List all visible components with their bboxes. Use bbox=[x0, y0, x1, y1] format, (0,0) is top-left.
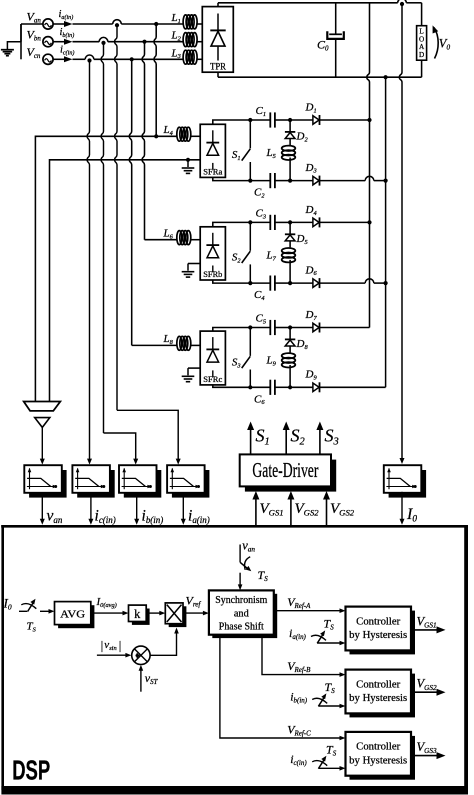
inductor L1 bbox=[171, 12, 203, 29]
wire multiplier to synchronism block bbox=[183, 611, 209, 616]
node D4 to bus A bbox=[367, 220, 371, 224]
wire k to multiplier bbox=[146, 611, 165, 616]
capacitor C4 bbox=[254, 276, 290, 303]
gate signal S1 arrow bbox=[247, 422, 270, 455]
diode D8 bbox=[285, 328, 309, 353]
wire phase-A sensor line to i_a sensor bbox=[115, 25, 117, 410]
block Controller by Hysteresis GS2 bbox=[346, 670, 416, 718]
block Synchronism and Phase Shift bbox=[209, 590, 277, 638]
capacitor C1 bbox=[256, 105, 291, 128]
ground SFRa bbox=[182, 158, 195, 174]
wire sampler to AVG bbox=[40, 609, 55, 614]
signal v_an into DSP sampler bbox=[238, 539, 268, 591]
svg-text:O: O bbox=[419, 35, 424, 43]
diode D9 bbox=[290, 369, 386, 393]
block multiplier X bbox=[165, 603, 186, 627]
ground SFRb bbox=[182, 264, 201, 278]
switch S3 bbox=[232, 325, 253, 389]
block Controller by Hysteresis GS1 bbox=[346, 607, 416, 655]
wire TPR positive stub bbox=[217, 3, 219, 7]
signal VGS2 into gate driver bbox=[287, 491, 319, 525]
signal i_a(in) sampler into controller bbox=[289, 617, 346, 646]
wire |v_sin| to modulator circle bbox=[97, 653, 131, 658]
capacitor C3 bbox=[256, 207, 291, 230]
wire SFRc bottom row bbox=[213, 385, 270, 387]
node phase-A sensor tap bbox=[115, 23, 119, 27]
svg-text:L: L bbox=[419, 28, 423, 36]
wire phase-C feed to module c bbox=[129, 59, 131, 345]
wire TPR negative stub bbox=[217, 72, 219, 77]
node bus-B on bottom rail bbox=[384, 75, 388, 79]
diode D3 bbox=[290, 162, 386, 186]
capacitor C2 bbox=[254, 173, 290, 200]
svg-text:A: A bbox=[419, 43, 425, 51]
wire SFRc top row bbox=[213, 328, 270, 332]
diode D7 bbox=[290, 309, 369, 333]
svg-text:|: | bbox=[119, 638, 122, 653]
ground neutral bbox=[7, 42, 21, 50]
svg-text:k: k bbox=[134, 607, 141, 621]
wire SFRb top row bbox=[213, 222, 270, 226]
wire AVG to k, label I0(avg) bbox=[91, 596, 129, 615]
node D6 to bus B bbox=[384, 281, 388, 285]
svg-text:by Hysteresis: by Hysteresis bbox=[349, 756, 407, 767]
svg-text:|: | bbox=[101, 638, 104, 653]
signal i_c(in) sampler into controller bbox=[290, 743, 345, 771]
block SFRc bbox=[200, 331, 225, 385]
block k bbox=[129, 605, 150, 625]
node after C5 bbox=[288, 325, 292, 329]
node D3 to bus B bbox=[384, 179, 388, 183]
sensor i_c(in) bbox=[72, 465, 115, 525]
ground SFRc bbox=[182, 368, 201, 382]
signal i_b(in) sampler into controller bbox=[290, 680, 345, 708]
source Vcn bbox=[27, 45, 54, 64]
svg-text:Synchronism: Synchronism bbox=[215, 595, 267, 606]
inductor L7 bbox=[266, 248, 296, 283]
wire SFRa bottom row bbox=[213, 177, 270, 180]
wire V_Ref-A to controller 1 bbox=[274, 595, 346, 613]
inductor L8 bbox=[163, 333, 201, 350]
svg-text:and: and bbox=[234, 608, 250, 619]
sampler switch Ts for I0 bbox=[21, 599, 36, 634]
wire bus A positive collector bbox=[367, 3, 370, 328]
wire neutral sense line (SFRa ground row) bbox=[50, 160, 201, 402]
signal v_ST input arrow bbox=[139, 665, 159, 692]
capacitor C6 bbox=[254, 380, 290, 406]
current arrow ia(in) bbox=[53, 9, 73, 27]
load block bbox=[417, 3, 427, 77]
node before D3 bbox=[288, 179, 292, 183]
wire SFRa top row bbox=[213, 120, 270, 124]
node D1 to bus A bbox=[367, 118, 371, 122]
diode D1 bbox=[290, 102, 369, 126]
svg-text:by Hysteresis: by Hysteresis bbox=[349, 693, 407, 704]
wire V_Ref-C branch bbox=[220, 635, 346, 741]
svg-text:by Hysteresis: by Hysteresis bbox=[349, 630, 407, 641]
sensor i_b(in) bbox=[119, 465, 163, 525]
capacitor C5 bbox=[256, 313, 291, 336]
svg-text:Controller: Controller bbox=[356, 742, 401, 753]
wire top DC rail with I0 tap hump bbox=[218, 2, 398, 4]
current arrow ib(in) bbox=[53, 27, 74, 45]
inductor L5 bbox=[266, 146, 296, 181]
wire phase-A source bus bbox=[21, 23, 43, 25]
DSP enclosure bbox=[1, 525, 468, 790]
wire SFRb bottom row bbox=[213, 280, 270, 283]
svg-text:TPR: TPR bbox=[210, 61, 227, 71]
node phase-B feed tap bbox=[142, 40, 146, 44]
sensor v_an bbox=[24, 465, 66, 525]
block SFRb bbox=[200, 227, 225, 280]
wire V_Ref-B branch bbox=[262, 635, 346, 677]
node after C3 bbox=[288, 220, 292, 224]
node I0 tap on top rail bbox=[400, 2, 404, 6]
block SFRa bbox=[200, 124, 225, 177]
wire bus B negative collector bbox=[385, 77, 387, 387]
multiplier circle with X bbox=[132, 646, 150, 664]
signal VGS2 into gate driver bbox=[323, 491, 355, 525]
block Gate-Driver bbox=[240, 454, 337, 491]
wire phase A with tap hump bbox=[73, 23, 113, 25]
switch S1 bbox=[232, 118, 253, 183]
sensor i_a(in) bbox=[167, 465, 210, 525]
capacitor C0 bbox=[317, 3, 344, 77]
node phase-C sensor tap bbox=[87, 58, 91, 62]
current arrow ic(in) bbox=[53, 45, 74, 63]
gate signal S3 arrow bbox=[316, 422, 338, 455]
node before D6 bbox=[288, 281, 292, 285]
svg-text:DSP: DSP bbox=[12, 755, 50, 786]
wire phase C with tap hump bbox=[73, 58, 86, 60]
signal V_GS2 output bbox=[411, 677, 446, 696]
block AVG bbox=[55, 602, 95, 629]
wire left neutral bus vertical bbox=[20, 24, 22, 59]
wire bottom DC rail bbox=[218, 76, 422, 78]
wire phase-C sensor line to i_c sensor bbox=[87, 61, 89, 462]
wire phase-B feed to module b bbox=[142, 42, 144, 240]
source Vbn bbox=[27, 27, 54, 46]
node phase-B sensor tap bbox=[101, 41, 105, 45]
node phase-A feed tap bbox=[154, 22, 158, 26]
block Controller by Hysteresis GS3 bbox=[346, 732, 416, 780]
wire phase-B sensor line to i_b sensor bbox=[101, 43, 103, 433]
svg-text:AVG: AVG bbox=[60, 608, 85, 620]
diode D6 bbox=[290, 264, 386, 288]
diode D4 bbox=[290, 204, 369, 228]
node before D9 bbox=[288, 385, 292, 389]
label |v_sin| bbox=[101, 638, 122, 653]
signal V_GS3 output bbox=[411, 740, 446, 759]
svg-text:Phase Shift: Phase Shift bbox=[219, 622, 264, 633]
inductor L2 bbox=[171, 30, 203, 47]
wire I0 measurement from top rail bbox=[399, 4, 402, 459]
signal V_GS1 output bbox=[411, 614, 446, 633]
inductor L6 bbox=[163, 227, 201, 244]
wire v_an sense line (L4 row) bbox=[35, 136, 177, 401]
wire phase-A feed to module a bbox=[154, 24, 156, 136]
voltage V0 arc arrow bbox=[433, 25, 451, 58]
node after C1 bbox=[288, 118, 292, 122]
svg-text:SFRc: SFRc bbox=[203, 375, 222, 384]
svg-text:SFRa: SFRa bbox=[203, 168, 222, 177]
inductor L4 bbox=[163, 124, 201, 141]
svg-text:Controller: Controller bbox=[356, 679, 401, 690]
sensor I0 bbox=[384, 465, 426, 525]
svg-text:Controller: Controller bbox=[356, 616, 401, 627]
wire I0 to sampler bbox=[19, 610, 27, 612]
switch S2 bbox=[232, 220, 253, 285]
inductor L9 bbox=[266, 353, 296, 387]
signal VGS1 into gate driver bbox=[252, 491, 283, 525]
rectifier block TPR U1 bbox=[202, 7, 233, 73]
op-amp differential sensor for v_an bbox=[24, 402, 61, 465]
diode D2 bbox=[285, 120, 309, 145]
gate signal S2 arrow bbox=[283, 422, 305, 455]
diode D5 bbox=[285, 222, 308, 247]
source Van bbox=[27, 10, 54, 29]
node feed joins L4 row bbox=[154, 134, 158, 138]
wire modulator to multiplier box bbox=[150, 628, 179, 656]
svg-text:Gate-Driver: Gate-Driver bbox=[252, 458, 318, 482]
svg-text:SFRb: SFRb bbox=[203, 270, 222, 279]
inductor L3 bbox=[171, 47, 203, 64]
node phase-C feed tap bbox=[130, 57, 134, 61]
svg-text:D: D bbox=[419, 51, 424, 59]
wire phase B with tap hump bbox=[73, 41, 100, 43]
